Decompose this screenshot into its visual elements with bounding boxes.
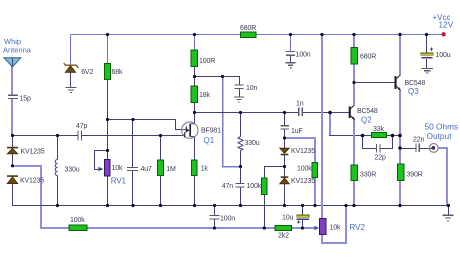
svg-text:RV2: RV2 xyxy=(350,223,366,232)
svg-text:330u: 330u xyxy=(65,167,80,174)
svg-text:100n: 100n xyxy=(220,215,235,222)
svg-text:330u: 330u xyxy=(245,140,260,147)
svg-text:Q1: Q1 xyxy=(204,136,215,145)
svg-text:12V: 12V xyxy=(439,20,454,30)
svg-text:KV1235: KV1235 xyxy=(291,178,315,185)
svg-text:390R: 390R xyxy=(407,172,423,179)
svg-text:100k: 100k xyxy=(297,165,312,172)
svg-text:100R: 100R xyxy=(199,58,215,65)
svg-text:Antenna: Antenna xyxy=(3,45,32,54)
svg-text:1uF: 1uF xyxy=(291,128,303,135)
svg-text:10k: 10k xyxy=(330,225,341,232)
svg-text:Output: Output xyxy=(427,131,453,141)
svg-text:10u: 10u xyxy=(282,214,293,221)
svg-text:100k: 100k xyxy=(247,183,262,190)
svg-text:47n: 47n xyxy=(222,183,233,190)
svg-text:22n: 22n xyxy=(413,136,424,143)
svg-text:1n: 1n xyxy=(296,101,304,108)
svg-text:KV1235: KV1235 xyxy=(20,178,44,185)
svg-text:10k: 10k xyxy=(112,165,123,172)
svg-text:100k: 100k xyxy=(70,217,85,224)
svg-text:330R: 330R xyxy=(360,172,376,179)
svg-text:Q2: Q2 xyxy=(361,116,372,125)
svg-text:18k: 18k xyxy=(199,92,210,99)
svg-text:4u7: 4u7 xyxy=(141,166,152,173)
svg-text:10n: 10n xyxy=(246,85,257,92)
svg-text:KV1235: KV1235 xyxy=(291,148,315,155)
svg-text:15p: 15p xyxy=(20,95,31,102)
svg-text:100u: 100u xyxy=(436,52,451,59)
svg-text:680R: 680R xyxy=(240,25,256,32)
svg-text:47p: 47p xyxy=(76,123,87,130)
svg-text:6V2: 6V2 xyxy=(81,69,93,76)
svg-text:68k: 68k xyxy=(112,69,123,76)
svg-text:KV1235: KV1235 xyxy=(21,148,45,155)
svg-text:BF981: BF981 xyxy=(201,127,221,134)
svg-text:1M: 1M xyxy=(166,166,176,173)
svg-text:RV1: RV1 xyxy=(111,176,127,185)
svg-text:100n: 100n xyxy=(296,52,311,59)
svg-text:BC548: BC548 xyxy=(357,108,378,115)
svg-text:2k2: 2k2 xyxy=(278,233,289,240)
svg-text:33k: 33k xyxy=(373,126,384,133)
svg-text:Q3: Q3 xyxy=(408,87,419,96)
svg-text:1k: 1k xyxy=(201,166,209,173)
svg-text:BC548: BC548 xyxy=(405,80,426,87)
svg-text:680R: 680R xyxy=(360,53,376,60)
svg-text:22p: 22p xyxy=(375,154,386,161)
